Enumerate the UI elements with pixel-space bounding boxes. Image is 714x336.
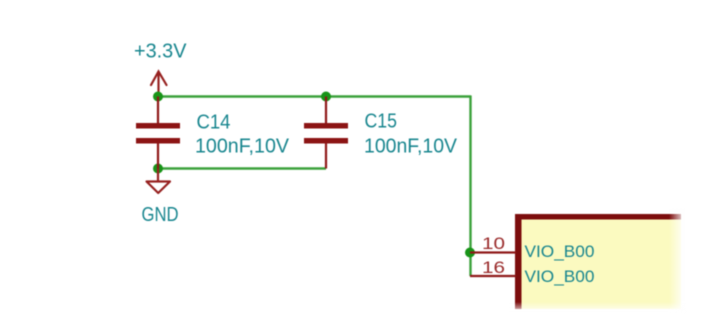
svg-text:10: 10 bbox=[482, 234, 505, 253]
label GND bbox=[142, 204, 179, 226]
svg-text:16: 16 bbox=[482, 258, 505, 277]
label C15 reference bbox=[365, 110, 398, 132]
junction node at pin 10 bbox=[465, 248, 475, 258]
ic U1 body (partially cropped) bbox=[515, 214, 681, 309]
junction node C15 top bbox=[321, 92, 331, 102]
ground symbol bbox=[147, 169, 171, 194]
label C14 value 100nF,10V bbox=[195, 135, 290, 157]
svg-text:VIO_B00: VIO_B00 bbox=[525, 268, 595, 286]
svg-text:VIO_B00: VIO_B00 bbox=[525, 243, 595, 261]
pin 16 line bbox=[470, 275, 516, 277]
svg-text:100nF,10V: 100nF,10V bbox=[195, 135, 290, 157]
label +3.3V bbox=[134, 41, 187, 63]
crop fade right edge of IC bbox=[669, 208, 686, 314]
junction node bottom-left bbox=[153, 164, 163, 174]
svg-text:GND: GND bbox=[142, 204, 179, 226]
svg-text:C15: C15 bbox=[365, 110, 398, 132]
pin 10 name VIO_B00 bbox=[525, 243, 595, 261]
capacitor C14 bbox=[136, 97, 180, 169]
power +3.3V symbol bbox=[151, 72, 167, 97]
pin 16 name VIO_B00 bbox=[525, 268, 595, 286]
pin 10 number bbox=[482, 234, 505, 253]
svg-text:100nF,10V: 100nF,10V bbox=[364, 135, 458, 157]
wire bottom rail bbox=[158, 167, 326, 169]
pin 10 line bbox=[470, 251, 516, 253]
junction node top-left bbox=[153, 92, 163, 102]
label C15 value 100nF,10V bbox=[364, 135, 458, 157]
crop fade bottom edge of IC bbox=[508, 302, 688, 314]
wire vertical to IC bbox=[469, 96, 471, 277]
pin 16 number bbox=[482, 258, 505, 277]
wire top rail bbox=[158, 95, 471, 97]
capacitor C15 bbox=[304, 97, 348, 169]
svg-text:C14: C14 bbox=[197, 112, 231, 134]
label C14 reference bbox=[197, 112, 231, 134]
svg-text:+3.3V: +3.3V bbox=[134, 41, 187, 63]
